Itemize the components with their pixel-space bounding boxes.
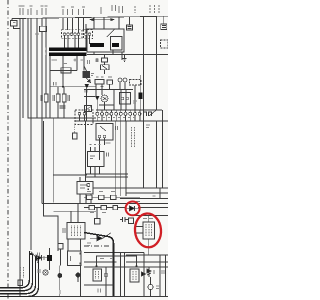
wire box bottom bus [87,54,168,56]
resistor R33 [89,206,95,210]
resistor R11 [95,80,104,85]
label net 5 [36,10,38,15]
socket box right edge dashed [161,40,169,48]
connector pin stubs up [97,110,139,112]
dash-dot service line [84,245,111,247]
connector pin o4 [110,112,113,115]
resistor R30 [87,195,93,199]
label net 15 [134,6,136,13]
vertical text label [21,267,24,278]
relay label box [93,269,102,281]
line y262 [126,261,168,263]
X1 pin 2 [67,33,70,36]
label U2 [106,142,111,144]
label [136,201,140,203]
wire branch y87 [50,86,97,88]
line y267 [84,266,168,268]
relay box K2 [120,93,131,105]
coil L1 bar [90,43,104,47]
standoff C5 [73,133,78,139]
label relay [35,33,39,35]
resistor R1 label [41,95,43,101]
label y289 small text [60,289,101,295]
resistor R31 [99,195,105,199]
diode D22 [142,272,146,276]
wire feed A2 [53,118,87,203]
A2 text [72,226,81,237]
label net 8 [62,7,65,15]
red circle small [126,202,140,216]
line y262 [84,261,117,263]
wire C10 drops [135,75,140,121]
wire [45,18,47,94]
terminal a box [11,19,13,21]
C30 label [43,256,45,260]
label under transformer [54,59,75,62]
wire [36,18,38,118]
label bottom right [162,270,164,274]
label D5 [96,59,98,63]
wire [22,19,24,119]
connector pin o2 [101,112,104,115]
wire [97,188,160,219]
wire to P switch [44,121,59,251]
line y255 [126,254,168,256]
leg labels [52,59,84,61]
connector X3 dashed box [75,110,93,125]
wire [45,102,47,118]
D21 label [153,270,155,274]
switch lever [107,29,115,38]
lamp LP1 [43,270,48,275]
label Q1 [91,74,94,76]
wire drop to C20 [129,17,131,25]
transistor Q3 circle [101,95,108,102]
label near bundle [38,253,40,257]
wire fuse feed [50,70,61,72]
line y193 [126,192,168,194]
line y215 [134,215,169,217]
wire x143 down [143,121,145,188]
heavy bend wire [84,233,114,297]
damper box [85,106,92,112]
red circle big [134,212,163,248]
switch box P [68,251,82,266]
switch label box vertical [130,269,139,282]
horizontal rail mid-left [28,117,96,119]
connector pin o10 [138,112,141,115]
lamp LP2 [57,273,62,278]
cluster mid rail [84,89,133,91]
bracket contacts [144,112,152,116]
wires cluster verticals [96,82,126,110]
rail above connector row [96,109,162,111]
label net 11 [78,9,80,15]
connector pin o1 [96,112,99,115]
wire drop to C21 [163,16,165,24]
P feed wires [61,239,81,296]
wire drop x143 [143,17,145,121]
K2 contact circles [121,97,124,100]
A2 top pins [71,204,78,223]
wire C30 [49,248,51,270]
label net 9 [67,9,69,15]
connector pin o5 [115,112,118,115]
X3 pin stubs [80,115,85,121]
pot P1 circle [118,78,122,82]
wire U4 feeds [80,121,86,182]
X3 pin 1 [78,113,81,116]
wire cluster horizontals [84,97,114,106]
wire fuse out [71,70,77,72]
D11 wire diagonal [90,233,111,239]
junction dot [30,253,32,255]
capacitor C20 box [127,25,133,30]
transistor Q2 body [85,84,90,88]
line y211 [54,210,97,212]
connector pin o3 [105,112,108,115]
wire right edge [165,255,167,296]
resistor R35 [113,206,118,210]
label net 6 [41,6,44,15]
junction dot [79,252,81,254]
vertical text Fernbedienung [132,127,135,148]
resistor R1 [44,94,48,102]
resistor R40 box [129,218,134,224]
label net 16 [149,5,151,13]
label small box [18,280,23,286]
X1 pin 5 [77,33,80,36]
wire R legs to rail [46,102,64,118]
X1 pin 3 [70,33,73,36]
label net 13 [100,7,102,14]
wire transformer mid leg [62,56,64,87]
capacitor C21 box [161,24,167,30]
posistor box U3 [87,29,124,52]
label y243 [87,243,91,246]
diode D10 [36,255,42,261]
label net 12 [82,7,85,15]
harness wire 3 [0,257,36,294]
lamp LP3 [76,273,81,278]
label net 10 [71,7,74,15]
dashed link box [130,80,142,86]
label net 14 [112,5,116,11]
label net 1 [19,6,22,15]
line y252.5 [84,252,144,254]
connector plug X1 dashed box [62,30,83,39]
IC U1 box [88,152,105,167]
resistor R12 [107,80,113,84]
wire stub [104,55,106,75]
wire pins to winding [65,36,90,48]
wire transformer right leg [77,56,84,71]
labels above [96,76,112,78]
U2 side label [116,126,118,130]
connector plug X2 dashed box [84,30,93,39]
transistor Q1 arrow [85,77,91,83]
opto box U2 [96,124,113,141]
motor M1 [148,284,153,289]
vertical text right [37,254,39,263]
harness wire 4 [0,259,39,297]
harness wire 1 [0,251,30,288]
connector pin o9 [133,112,136,115]
resistor R10 (below filter box) [102,58,108,62]
label X pins [98,117,135,119]
transformer T1 secondary winding bar [49,52,87,56]
posistor box A3 (in big red circle) [143,222,155,239]
pot P2 circle [123,78,127,82]
bottom rail [0,296,168,298]
line y256 with corner drops [97,256,137,267]
junction dot left [95,265,97,267]
wire mains N drop [30,18,32,250]
wire box legs [94,50,122,60]
wire to relay [41,18,43,26]
line y198.5 [120,198,168,200]
driver box U4 [77,182,93,195]
wire stub [14,26,21,29]
X2 pin 1 [85,33,88,36]
P text [70,256,72,261]
board edge dash-dot border [7,0,9,300]
fuse F1 [61,68,71,73]
resistor R32 [111,195,117,199]
resistor R3 label [68,95,70,101]
wire x156 drop lower [156,121,158,188]
U4 pins [80,194,91,204]
U2 pins [98,135,101,138]
label fuse [63,63,67,65]
wire q leg [86,89,88,122]
capacitor C3 marks [60,106,66,108]
line y197 [84,196,140,198]
wire drop x156 [156,16,158,110]
R10 label [96,58,98,62]
horizontal bus B [42,203,168,205]
connector pin stubs down [97,115,139,121]
label bridge [88,60,90,64]
label mid right [146,125,150,128]
bus under IC [86,173,128,175]
dimension arrow A [90,19,114,21]
capacitor C30 black [47,255,52,261]
label net 4 [30,6,33,15]
label C [54,82,57,86]
label motor [156,286,160,289]
labels left [85,87,104,93]
label y258 [100,258,113,260]
wire box edge link [67,239,69,251]
A3 wires [135,216,149,256]
feedback verticals [116,121,126,196]
U4 marks [80,185,88,188]
diode D20 (in small red circle) [130,206,135,211]
junction dot right [135,265,137,267]
zener pair D21 [147,269,151,275]
capacitor C10 black [139,93,143,100]
line y188 [93,187,168,189]
wire mains L drop [19,19,21,297]
capacitor C40 [120,217,128,222]
horizontal rail mid-right [75,120,168,122]
wire transformer left leg [49,56,51,118]
X3 pin 2 [83,113,86,116]
connector pin o8 [129,112,132,115]
label net 2 [22,6,25,15]
top supply rail [12,16,168,18]
wire U2 to bus [100,138,105,160]
box timer A2 [67,223,85,240]
label x150 [153,195,156,197]
U1 top pins [91,147,100,152]
wire R2 R3 tops [58,87,64,94]
label net 14b [119,6,123,13]
label lp1 [38,269,40,273]
wire diode line [42,257,48,259]
U1 text [90,156,95,159]
coil L2 bar [112,43,119,47]
pickup box [95,219,101,225]
U3 top pins [94,17,119,29]
label net 18 [158,5,160,13]
wire [27,18,29,118]
wire x162 drop [162,110,164,188]
label net 3 [27,9,29,15]
resistor R3 [62,94,66,102]
harness wire 2 [0,254,33,291]
relay K1 box [40,26,47,31]
diagonal jumper [149,110,157,117]
X1 pin 1 [63,33,66,36]
U1 bottom pins [91,167,100,178]
wire pins to rail [63,18,86,33]
label R30 [87,191,115,193]
resistor R34 [101,206,107,210]
U1 right label [107,153,109,157]
wire drops to bottom [121,252,125,296]
U1 pin labels [90,144,101,146]
earth symbol [123,55,127,62]
X2 pin 2 [88,33,91,36]
label R33 [90,212,106,214]
diode D6 [95,96,99,100]
winding number labels [45,48,47,56]
line y207.5 [84,207,168,209]
resistor R2 label [53,95,55,101]
diode D11 [97,236,103,241]
junction dot [62,86,64,88]
test point [87,183,90,186]
inner switch box [111,37,123,51]
small box above P [58,244,63,250]
A3 vertical text [146,224,152,237]
connector pin o7 [124,112,127,115]
diode D5 box [101,65,110,70]
diagonal branch [31,252,37,258]
resistor R2 [56,94,60,102]
label A3 top [143,218,153,220]
connector pin o6 [119,112,122,115]
capacitor C31 [104,267,108,296]
wire relay to bus [41,32,43,204]
label top-left a [13,22,16,24]
transformer T1 primary winding bar [49,48,87,52]
thermistor R20 hatched blob [83,71,91,78]
label net 17 [154,5,156,13]
bus under IC 2 [86,176,128,178]
label net 7 [45,6,48,15]
wire y285 [84,284,114,286]
wire right drops [144,252,160,296]
X1 pin 4 [74,33,77,36]
label K2 [133,101,137,103]
